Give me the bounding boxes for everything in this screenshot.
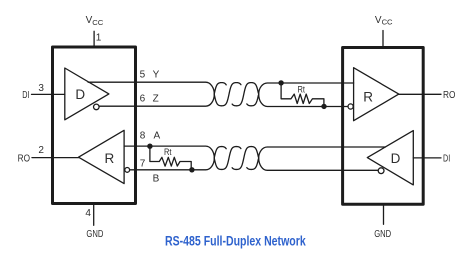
power VCC (right) <box>375 15 393 48</box>
svg-text:R: R <box>105 151 115 166</box>
inversion bubble on D output (right) <box>378 168 384 174</box>
driver D (U2) <box>367 131 413 185</box>
receiver R (U1) <box>79 130 125 183</box>
junction node on Z at Rt <box>321 104 326 109</box>
svg-text:VCC: VCC <box>375 15 393 27</box>
svg-text:8: 8 <box>140 130 146 141</box>
ground GND (left), pin 4 <box>85 204 103 240</box>
svg-text:RO: RO <box>18 154 31 165</box>
svg-text:RS-485 Full-Duplex Network: RS-485 Full-Duplex Network <box>165 233 306 248</box>
svg-text:Rt: Rt <box>298 85 306 95</box>
svg-text:D: D <box>75 87 85 102</box>
junction node on Y at Rt <box>278 80 283 85</box>
wire B (bottom pair) <box>130 158 378 170</box>
svg-text:B: B <box>153 174 160 185</box>
svg-text:DI: DI <box>22 90 29 101</box>
inversion bubble on R input B <box>125 168 130 173</box>
wire A (bottom pair) <box>124 146 385 158</box>
svg-text:Rt: Rt <box>164 147 172 157</box>
svg-text:4: 4 <box>85 208 91 219</box>
inversion bubble on D output Z <box>94 104 100 110</box>
svg-text:A: A <box>154 130 161 141</box>
svg-text:DI: DI <box>443 154 450 165</box>
resistor Rt (top pair termination) <box>281 83 324 107</box>
output RO (right) <box>399 90 456 101</box>
svg-text:3: 3 <box>38 83 44 94</box>
driver D (U1) <box>65 68 109 120</box>
receiver R (U2) <box>354 68 399 121</box>
svg-text:GND: GND <box>374 229 391 240</box>
svg-text:6: 6 <box>140 93 146 104</box>
svg-text:VCC: VCC <box>86 15 104 27</box>
output RO, pin 2 <box>18 145 79 165</box>
twisted-pair loops (bottom pair) <box>214 147 258 170</box>
svg-text:7: 7 <box>140 159 146 170</box>
junction node on A at Rt <box>147 144 152 149</box>
svg-text:2: 2 <box>38 145 44 156</box>
svg-text:R: R <box>363 89 373 104</box>
svg-text:5: 5 <box>140 70 146 81</box>
transceiver U2 (right chip body) <box>343 48 424 205</box>
power VCC (left), pin 1 <box>86 15 104 47</box>
junction node on B at Rt <box>189 167 194 172</box>
svg-text:Y: Y <box>153 70 160 81</box>
input DI, pin 3 <box>22 83 65 101</box>
inversion bubble on R input (right) <box>348 104 353 109</box>
svg-text:Z: Z <box>153 93 159 104</box>
ground GND (right) <box>374 204 391 240</box>
svg-text:GND: GND <box>86 229 103 240</box>
svg-text:1: 1 <box>96 33 102 44</box>
wire Z (top pair) <box>100 94 348 106</box>
transceiver U1 (left chip body) <box>53 47 136 204</box>
svg-text:D: D <box>391 151 401 166</box>
wire Y (top pair) <box>88 82 354 94</box>
twisted-pair loops (top pair) <box>214 83 258 106</box>
resistor Rt (bottom pair termination) <box>150 146 191 170</box>
input DI (right) <box>413 154 450 165</box>
svg-text:RO: RO <box>443 90 456 101</box>
